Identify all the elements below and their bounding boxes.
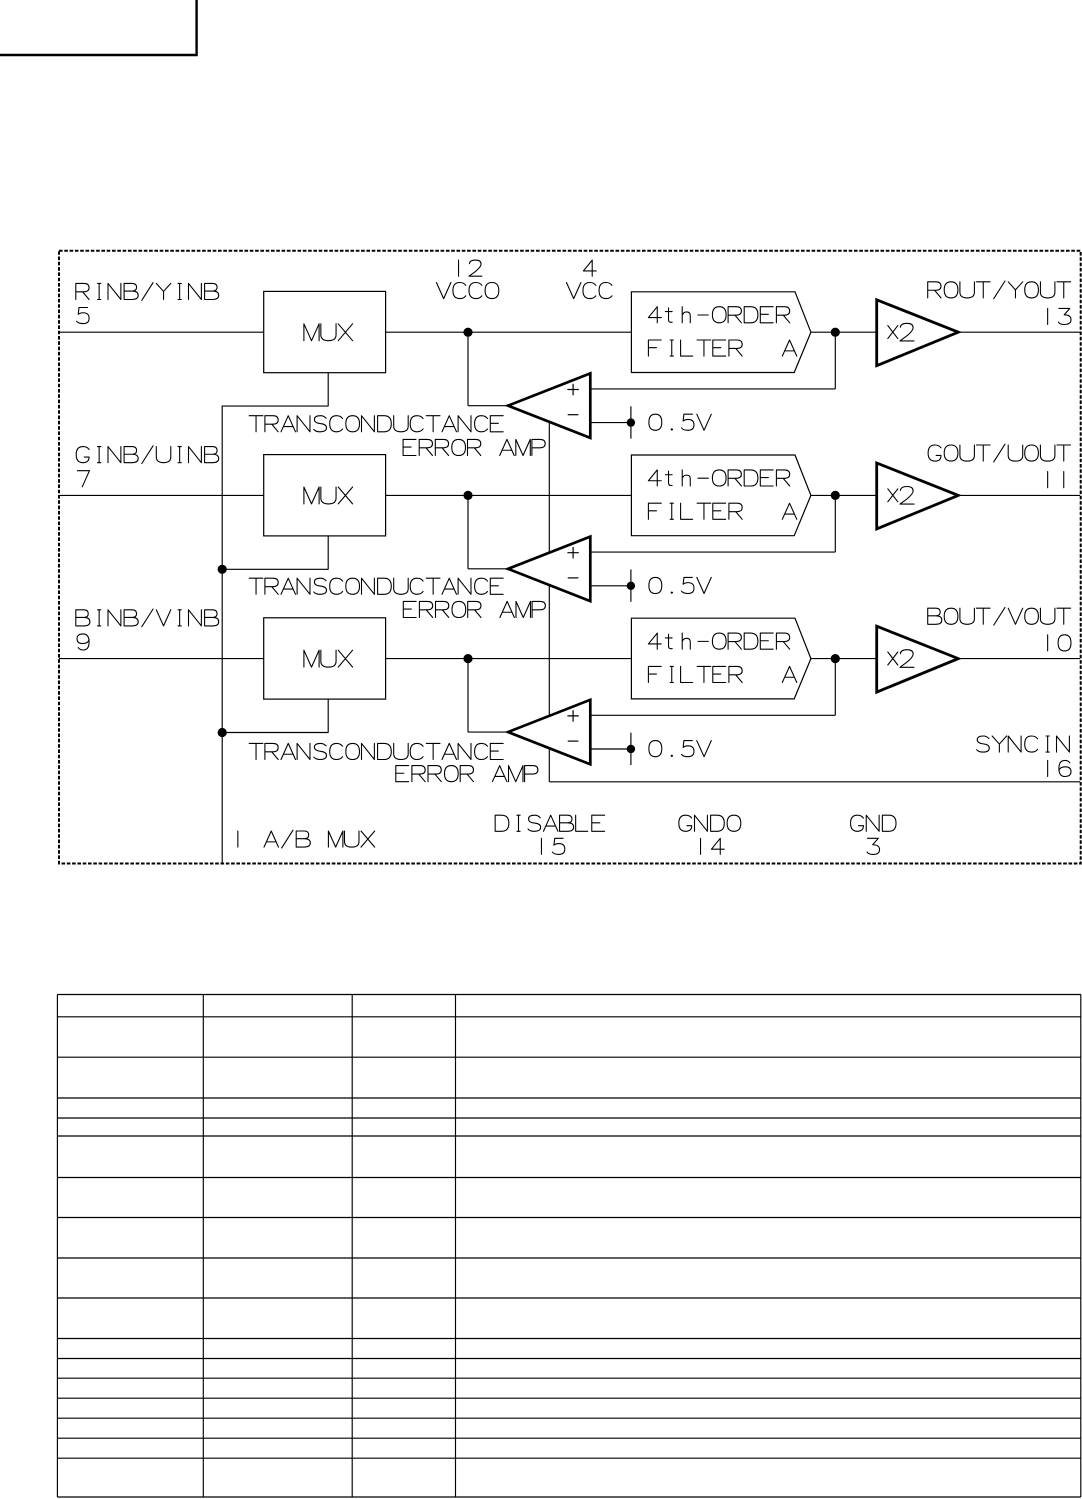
wire MUX3 output to filter bbox=[386, 658, 632, 660]
wire x2 R output to pin 13 bbox=[958, 331, 1080, 333]
wire feedback to error amp B + input bbox=[590, 659, 835, 716]
pin 16 SYNCIN bbox=[977, 736, 1071, 777]
wire x2 G output to pin 11 bbox=[958, 494, 1080, 496]
wire MUX1 select stub bbox=[222, 373, 329, 407]
amplifier x2 buffer (B) bbox=[877, 626, 959, 692]
label transconductance error amp B bbox=[249, 743, 538, 781]
wire feedback to error amp R + input bbox=[590, 332, 835, 389]
wire error amp R - input to 0.5V bbox=[590, 422, 631, 424]
label transconductance error amp R bbox=[249, 416, 545, 456]
junction MUX3 output node bbox=[463, 654, 472, 663]
wire input BINB/VINB from pin 9 to MUX bbox=[59, 658, 264, 660]
pin 1 A/B MUX select bbox=[238, 830, 375, 848]
table pin function table (empty) bbox=[57, 995, 1080, 1498]
op-amp transconductance error amp G bbox=[508, 537, 590, 602]
pin 15 DISABLE bbox=[495, 815, 604, 854]
wire MUX3 select stub bbox=[222, 699, 328, 733]
wire feedback to error amp G + input bbox=[590, 495, 835, 552]
wire input GINB/UINB from pin 7 to MUX bbox=[59, 494, 264, 496]
wire SYNCIN rail vertical bbox=[548, 422, 550, 782]
filter block 4th-order filter A (B) bbox=[631, 618, 811, 699]
mux MUX2 (G channel) bbox=[264, 455, 386, 536]
label transconductance error amp G bbox=[249, 578, 545, 617]
wire MUX2 output to filter bbox=[386, 494, 632, 496]
pin 14 GNDO bbox=[679, 815, 741, 854]
wire A/B MUX select rail bbox=[221, 406, 223, 863]
mux MUX1 (R channel) bbox=[264, 291, 386, 372]
junction select rail row 2 bbox=[218, 565, 227, 574]
node 0.5V reference (B) bbox=[627, 733, 712, 765]
wire error amp B output to node bbox=[468, 659, 508, 732]
junction filter R output node bbox=[831, 328, 840, 337]
node 0.5V reference (G) bbox=[627, 570, 712, 602]
junction filter G output node bbox=[831, 491, 840, 500]
amplifier x2 buffer (R) bbox=[877, 300, 959, 366]
wire filter G output to x2 amp bbox=[811, 494, 877, 496]
junction filter B output node bbox=[831, 654, 840, 663]
op-amp transconductance error amp B bbox=[508, 700, 590, 765]
wire input RINB/YINB from pin 5 to MUX bbox=[59, 331, 264, 333]
wire error amp B - input to 0.5V bbox=[590, 748, 631, 750]
pin 13 ROUT/YOUT output bbox=[928, 281, 1071, 325]
wire filter R output to x2 amp bbox=[811, 331, 877, 333]
pin 12 VCCO bbox=[436, 260, 498, 299]
wire MUX1 output to filter bbox=[386, 331, 632, 333]
wire error amp G - input to 0.5V bbox=[590, 585, 631, 587]
junction MUX1 output node bbox=[463, 328, 472, 337]
junction MUX2 output node bbox=[463, 491, 472, 500]
pin 4 VCC bbox=[566, 260, 611, 299]
wire filter B output to x2 amp bbox=[811, 658, 877, 660]
wire MUX2 select stub bbox=[222, 536, 328, 570]
wire SYNCIN rail horizontal to pin 16 bbox=[549, 781, 1080, 783]
filter block 4th-order filter A (R) bbox=[631, 292, 811, 373]
pin 7 GINB/UINB input bbox=[76, 446, 218, 487]
amplifier x2 buffer (G) bbox=[877, 463, 959, 529]
filter block 4th-order filter A (G) bbox=[631, 455, 811, 536]
op-amp transconductance error amp R bbox=[508, 373, 590, 438]
mux MUX3 (B channel) bbox=[264, 618, 386, 699]
pin 11 GOUT/UOUT output bbox=[928, 444, 1070, 488]
wire error amp R output to node bbox=[468, 332, 508, 405]
pin 9 BINB/VINB input bbox=[76, 609, 219, 650]
wire error amp G output to node bbox=[468, 495, 508, 568]
wire x2 B output to pin 10 bbox=[958, 658, 1080, 660]
pin 3 GND bbox=[851, 815, 896, 854]
pin 5 RINB/YINB input bbox=[76, 283, 219, 324]
pin 10 BOUT/VOUT output bbox=[928, 607, 1071, 651]
node 0.5V reference (R) bbox=[627, 406, 712, 438]
junction select rail row 3 bbox=[218, 728, 227, 737]
IC boundary (dashed package outline) bbox=[59, 251, 1081, 864]
